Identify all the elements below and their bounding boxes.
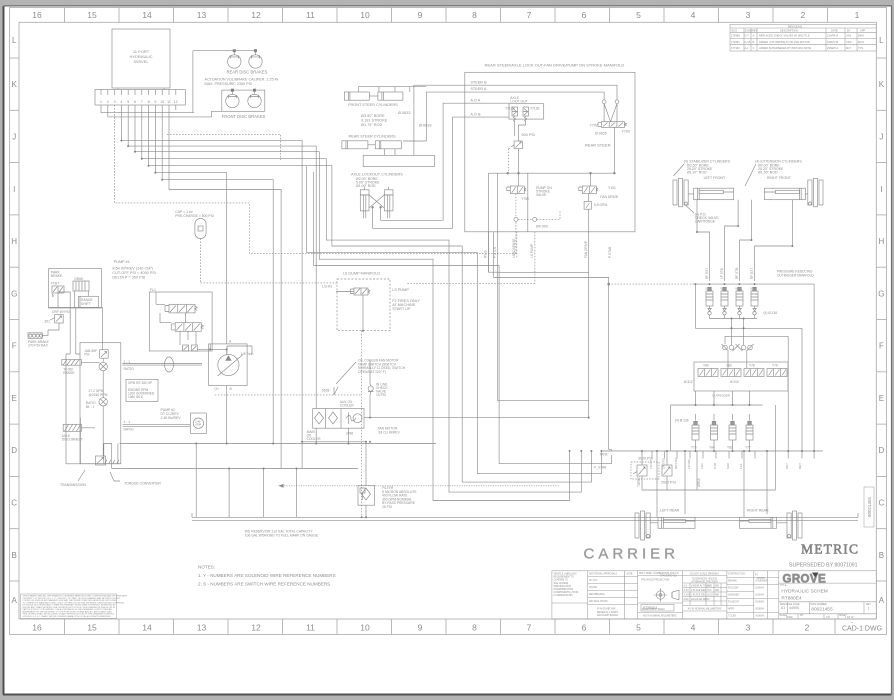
svg-text:9: 9 [418, 623, 423, 633]
svg-text:CHECKED: CHECKED [728, 595, 740, 597]
right nested wires [488, 271, 497, 273]
svg-text:CAD-1 DWG: CAD-1 DWG [842, 626, 882, 633]
svg-text:ANGULAR DIM: ANGULAR DIM [691, 598, 707, 601]
svg-text:FRONT STEER CYLINDERS: FRONT STEER CYLINDERS [348, 103, 398, 107]
svg-text:Y713E: Y713E [530, 107, 540, 111]
svg-text:LEFT FRONT: LEFT FRONT [704, 176, 726, 180]
svg-text:Y83: Y83 [726, 364, 732, 368]
svg-text:8JUN04: 8JUN04 [756, 609, 765, 611]
svg-text:3786: 3786 [346, 432, 354, 436]
svg-text:3 PLACE DEC: 3 PLACE DEC [691, 594, 706, 597]
svg-text:S4O: S4O [726, 462, 730, 469]
svg-text:SAE J1319/92: SAE J1319/92 [554, 582, 569, 585]
accumulator dashed drop [200, 238, 202, 283]
svg-text:LS-IN: LS-IN [322, 285, 332, 289]
wire bank bus [671, 391, 763, 451]
wire park brake bottom [49, 307, 103, 309]
svg-text:11: 11 [167, 100, 171, 104]
svg-text:NONE: NONE [786, 617, 793, 619]
svg-text:RF EXT: RF EXT [705, 268, 709, 279]
svg-text:A: A [12, 596, 18, 605]
svg-text:13: 13 [197, 10, 207, 20]
FL1 valve box [149, 292, 212, 351]
svg-text:CARTRIDGE: CARTRIDGE [695, 220, 716, 224]
svg-text:MAX. PRESSURE: 2300 PSI: MAX. PRESSURE: 2300 PSI [205, 82, 253, 86]
svg-text:4: 4 [120, 100, 122, 104]
svg-text:BKM: BKM [858, 34, 864, 38]
main lower bus [601, 450, 823, 452]
svg-text:G: G [878, 289, 884, 298]
svg-text:1/8 Twin: 1/8 Twin [241, 352, 254, 356]
wire cylinder drops [697, 200, 792, 281]
wire steer B [414, 85, 465, 149]
svg-text:O<: O< [215, 387, 220, 391]
outrigger bank box [694, 362, 788, 391]
prop valve stack 2 [175, 323, 201, 332]
svg-text:FRONT DISC BRAKES: FRONT DISC BRAKES [222, 114, 266, 119]
svg-text:ANG: ANG [684, 598, 689, 601]
dashed brake pilot wire [167, 134, 280, 160]
rear disc brakes [193, 50, 262, 113]
svg-text:LS DUMP MANIFOLD: LS DUMP MANIFOLD [343, 272, 381, 276]
svg-text:OTHERWISE SPECIFIED: OTHERWISE SPECIFIED [691, 582, 718, 584]
svg-text:14: 14 [142, 10, 152, 20]
svg-text:DESI BRAZNG: DESI BRAZNG [589, 593, 605, 596]
reservoir drops [196, 444, 296, 518]
manifold lower wire [695, 284, 802, 451]
11-port hydraulic swivel [112, 29, 170, 90]
svg-text:REPLACED CHECK VALVES W/ SHUTT: REPLACED CHECK VALVES W/ SHUTTLE [759, 34, 810, 38]
pump on stroke valve Y755 [510, 186, 524, 194]
svg-text:REQUIREMENT TO: REQUIREMENT TO [554, 577, 575, 579]
svg-text:TRANSMISSION: TRANSMISSION [60, 483, 86, 487]
svg-text:7: 7 [527, 623, 532, 633]
ratio shaft 1 [122, 364, 202, 366]
svg-text:SWIVEL: SWIVEL [133, 59, 149, 64]
wire steer A [403, 92, 465, 141]
park brake port block [28, 333, 43, 339]
svg-text:L: L [879, 36, 884, 45]
svg-text:Y79: Y79 [705, 287, 711, 291]
svg-text:F: F [879, 342, 884, 351]
svg-text:LF STB: LF STB [720, 268, 724, 279]
revision table [730, 25, 876, 52]
svg-text:(4) Ø.136: (4) Ø.136 [764, 311, 778, 315]
collect wire [710, 319, 758, 329]
svg-text:9.191 STROKE: 9.191 STROKE [361, 119, 388, 123]
inline check valve [368, 386, 373, 391]
svg-text:6: 6 [582, 623, 587, 633]
svg-text:1: 1 [100, 100, 102, 104]
svg-text:REVISIONS: REVISIONS [788, 24, 802, 28]
valve group drop wire [515, 121, 526, 136]
svg-text:10: 10 [160, 100, 164, 104]
rotated port labels [484, 239, 613, 259]
svg-text:AF QTC: AF QTC [589, 579, 598, 582]
enclosure internal wires [81, 308, 103, 457]
svg-text:L: L [12, 36, 17, 45]
svg-text:G-15: G-15 [745, 40, 751, 44]
svg-text:H: H [11, 237, 17, 246]
svg-text:DATE: DATE [627, 573, 633, 576]
svg-text:REAR STEER: REAR STEER [585, 143, 611, 148]
svg-text:Y101: Y101 [608, 186, 616, 190]
svg-text:D: D [879, 446, 885, 455]
S528 switch [322, 389, 330, 393]
svg-text:Ø.312: Ø.312 [684, 380, 693, 384]
fan symbol [346, 413, 356, 425]
manifold exit wires [488, 173, 527, 401]
svg-text:ADDED SUPERSEDED BY 80071091 N: ADDED SUPERSEDED BY 80071091 NOTE [759, 46, 811, 50]
svg-text:5: 5 [636, 623, 641, 633]
svg-text:REV: REV [752, 28, 758, 32]
svg-text:X.XXX: X.XXX [684, 595, 691, 597]
LS dump manifold box [337, 279, 390, 331]
svg-text:DELTA P = 350 PSI: DELTA P = 350 PSI [112, 276, 145, 280]
compensator link wire [198, 344, 227, 355]
svg-text:FAN DRIVE: FAN DRIVE [600, 195, 619, 199]
relief 500 PSI [514, 141, 522, 149]
pump case drain wires [227, 346, 252, 354]
center vertical wires to LS [488, 232, 493, 278]
svg-text:TANK: TANK [600, 453, 609, 457]
svg-text:E: E [12, 394, 17, 403]
svg-text:15: 15 [87, 623, 97, 633]
svg-text:5: 5 [127, 100, 129, 104]
svg-text:A/S IN NOMINAL MILLIMETERS: A/S IN NOMINAL MILLIMETERS [688, 608, 722, 611]
svg-text:29SEP14: 29SEP14 [827, 46, 839, 50]
svg-text:A1: A1 [781, 606, 785, 610]
svg-text:FAN DRIVE: FAN DRIVE [584, 241, 588, 258]
wire bus 7 [142, 105, 582, 492]
svg-text:LOCK OUT: LOCK OUT [510, 100, 527, 104]
svg-text:RS B: RS B [484, 251, 488, 258]
svg-text:D: D [11, 446, 17, 455]
svg-text:MM: MM [715, 590, 719, 592]
extension cylinder right [764, 188, 807, 200]
svg-text:AND DAMP BADGE: AND DAMP BADGE [597, 614, 618, 617]
svg-text:REV: REV [866, 604, 871, 606]
svg-text:GROVE U.S. L.L.C. SHADY GROVE,: GROVE U.S. L.L.C. SHADY GROVE, PENNSYLVA… [23, 615, 112, 618]
wire port9 to pump [155, 105, 226, 344]
JAB valve [100, 350, 109, 359]
svg-text:172491: 172491 [731, 40, 740, 44]
coupling ellipse [165, 357, 174, 372]
svg-text:Ø.0625: Ø.0625 [595, 132, 607, 136]
svg-text:10: 10 [360, 623, 370, 633]
svg-text:Y81: Y81 [735, 287, 741, 291]
svg-text:C: C [753, 46, 755, 50]
svg-text:7: 7 [141, 100, 143, 104]
svg-text:X.XX: X.XX [684, 590, 690, 592]
svg-text:RIGHT REAR: RIGHT REAR [747, 509, 769, 513]
svg-text:4: 4 [691, 10, 696, 20]
wire port10 [162, 105, 273, 444]
front disc brakes [222, 89, 265, 111]
wire tank return [642, 451, 697, 490]
svg-text:A.O B: A.O B [470, 112, 481, 116]
svg-text:CONTRACT NO.: CONTRACT NO. [728, 573, 746, 576]
svg-text:177190: 177190 [731, 46, 740, 50]
svg-text:ACTUATION VOL/BRAKE CALIPER: 1: ACTUATION VOL/BRAKE CALIPER: 1.25 IN [205, 78, 279, 82]
svg-text:APPD: APPD [728, 608, 735, 611]
ruler numbers top [32, 10, 859, 20]
svg-text:C: C [879, 499, 885, 508]
P STAB vertical [609, 284, 612, 451]
shuttle V link [604, 104, 617, 122]
svg-text:STEER B: STEER B [470, 80, 487, 84]
pilot dashed wire port3 [115, 105, 516, 254]
svg-text:A: A [753, 34, 755, 38]
pump 2 circle [191, 413, 207, 433]
svg-text:REAR DISC BRAKES: REAR DISC BRAKES [227, 69, 268, 74]
svg-text:2.48 IN³/REV: 2.48 IN³/REV [161, 416, 182, 420]
ratio shaft 2 [123, 425, 190, 427]
svg-text:LOADSENSE: LOADSENSE [512, 239, 516, 259]
svg-text:SPECIFICATION: SPECIFICATION [554, 585, 572, 588]
svg-text:6: 6 [134, 100, 136, 104]
svg-text:(4) Ø.136: (4) Ø.136 [675, 419, 689, 423]
svg-text:T.CLEN: T.CLEN [728, 616, 736, 618]
front steer cylinders [344, 87, 426, 101]
svg-text:PUMP #1: PUMP #1 [114, 260, 130, 264]
orifice 5.5 GPM [584, 201, 591, 209]
svg-text:7: 7 [527, 10, 532, 20]
svg-text:1 OF 10: 1 OF 10 [845, 617, 854, 619]
port numbers [100, 100, 178, 104]
svg-text:RATIO: RATIO [124, 427, 134, 431]
svg-text:19MAY15: 19MAY15 [827, 40, 839, 44]
small orifice squares [183, 345, 189, 351]
svg-text:±1°: ±1° [707, 599, 711, 601]
drain box [73, 281, 89, 291]
svg-text:STEER A: STEER A [470, 87, 487, 91]
wire staircase extra [307, 166, 602, 474]
bottom small valve [96, 456, 106, 465]
svg-text:RANGE: RANGE [63, 371, 74, 375]
svg-text:±0.5: ±0.5 [707, 590, 712, 592]
svg-text:2: 2 [107, 100, 109, 104]
svg-text:NOTES:: NOTES: [198, 565, 215, 570]
circle X 2 [99, 398, 107, 406]
svg-text:RT880E4: RT880E4 [643, 606, 657, 610]
svg-text:B: B [12, 551, 17, 560]
cooler labels [307, 427, 401, 442]
pump out wire [226, 386, 228, 444]
svg-text:A.O A: A.O A [470, 99, 480, 103]
svg-text:2000 PSI: 2000 PSI [661, 481, 676, 485]
svg-text:LSI RT: LSI RT [649, 460, 653, 469]
LS dump solenoid [354, 288, 368, 295]
leader lines [674, 164, 757, 213]
reservoir line [192, 513, 858, 520]
rear steer cylinders [342, 141, 435, 167]
svg-text:CARRIER: CARRIER [584, 546, 680, 563]
svg-text:P.I.: P.I. [755, 575, 759, 577]
svg-text:8JUN04: 8JUN04 [756, 616, 765, 618]
Y713B valve [512, 107, 518, 116]
wire A.O B [373, 117, 465, 228]
svg-text:GROVE: GROVE [783, 573, 827, 585]
svg-text:FL1: FL1 [150, 288, 156, 292]
svg-text:Ø3.50" BORE: Ø3.50" BORE [361, 114, 385, 118]
svg-text:DO NOT SCALE DRAWING: DO NOT SCALE DRAWING [690, 573, 719, 576]
wire rr feed [697, 405, 775, 490]
svg-text:44955: 44955 [789, 606, 799, 610]
filter [358, 486, 375, 506]
manifold title [485, 63, 625, 68]
FL1 internal wires [156, 292, 196, 345]
svg-text:8JUN04: 8JUN04 [756, 602, 765, 604]
A.O A internal wire [465, 102, 509, 104]
LS manifold internal wire [336, 292, 363, 331]
svg-text:COOLER: COOLER [307, 437, 322, 441]
pilot dashed to relief [509, 149, 512, 174]
svg-text:1 : 1: 1 : 1 [124, 420, 131, 424]
svg-text:5: 5 [636, 10, 641, 20]
gauge ports [602, 100, 606, 104]
axle lockout valve group box [509, 104, 544, 119]
wire bus 8 [149, 105, 592, 482]
svg-text:@2150 RPM: @2150 RPM [89, 393, 108, 397]
svg-text:500 PSI: 500 PSI [522, 133, 536, 137]
svg-text:B: B [753, 40, 755, 44]
svg-text:Ø.0633: Ø.0633 [398, 111, 410, 115]
svg-text:DISCONNECT: DISCONNECT [62, 438, 83, 442]
wire port11 [169, 105, 281, 469]
wire y441.8 [302, 441, 366, 443]
svg-text:G-7: G-7 [745, 34, 750, 38]
cartridge valves Y79 Y82 Y81 Y75 [706, 287, 758, 318]
svg-text:3: 3 [746, 623, 751, 633]
main pump enclosure [80, 343, 121, 464]
svg-text:Y82: Y82 [727, 446, 733, 450]
relief 2000 PSI [662, 451, 672, 490]
svg-text:25 PSI: 25 PSI [382, 505, 392, 509]
svg-text:3000 PSI: 3000 PSI [638, 457, 653, 461]
case drain dashed [215, 394, 362, 396]
title block text [554, 572, 787, 618]
wire port2 to front brakes [108, 105, 222, 117]
svg-text:METRIC: METRIC [801, 542, 859, 557]
extension cylinder right plates [808, 178, 823, 207]
svg-text:R.OLSON: R.OLSON [728, 588, 739, 590]
svg-text:13: 13 [197, 623, 207, 633]
pump2 text [161, 408, 182, 420]
svg-text:L4D: L4D [700, 463, 704, 469]
rear steer manifold box [465, 72, 635, 232]
svg-text:Y790: Y790 [622, 130, 630, 134]
svg-text:IF IN DOUBT ASK: IF IN DOUBT ASK [597, 608, 616, 611]
fan return frame [498, 273, 589, 401]
svg-text:GPM: GPM [195, 422, 201, 426]
svg-text:Y78: Y78 [749, 364, 755, 368]
svg-text:K: K [879, 80, 885, 89]
svg-text:B1 : 1: B1 : 1 [86, 405, 95, 409]
svg-text:119135: 119135 [757, 578, 765, 580]
wire STEER A [465, 92, 604, 100]
svg-text:ADDITIONAL APPROVALS: ADDITIONAL APPROVALS [589, 573, 617, 576]
wire outrigger drops [657, 451, 767, 517]
wire cooler right [364, 417, 589, 419]
prop valve stack 1 [169, 304, 195, 313]
aux oil cooler label [340, 400, 355, 408]
svg-text:A-1: A-1 [745, 46, 750, 50]
svg-text:REAR STEER/AXLE LOCK OUT-FAN D: REAR STEER/AXLE LOCK OUT-FAN DRIVE/PUMP … [485, 63, 625, 68]
shuttle valve pair [722, 328, 754, 351]
svg-text:E: E [879, 394, 884, 403]
svg-text:Y82: Y82 [720, 287, 726, 291]
svg-text:MM: MM [715, 595, 719, 597]
main pump assembly [209, 344, 248, 386]
svg-text:1: 1 [868, 607, 870, 611]
wire STEER B [465, 85, 617, 100]
svg-text:8.54 IN³/REV (140 CM³): 8.54 IN³/REV (140 CM³) [112, 267, 153, 271]
svg-text:15 PSI: 15 PSI [376, 393, 386, 397]
svg-text:SHIFT: SHIFT [81, 302, 91, 306]
wire ls manifold drop dashed [361, 331, 363, 518]
svg-text:11: 11 [306, 10, 315, 20]
svg-text:RIGHT FRONT: RIGHT FRONT [767, 176, 792, 180]
svg-text:ADDED .078 ORIFICE AT OIL FAN: ADDED .078 ORIFICE AT OIL FAN MOTOR [759, 40, 810, 44]
svg-text:START UP: START UP [392, 307, 411, 311]
svg-text:Y76: Y76 [691, 446, 697, 450]
svg-text:A/S IN NOMINAL MILLIMETERS: A/S IN NOMINAL MILLIMETERS [643, 615, 677, 618]
axle lockout cylinders [360, 187, 393, 218]
svg-text:X.X: X.X [684, 586, 688, 588]
svg-text:DWG NUMBER: DWG NUMBER [811, 604, 828, 606]
wire port12 [175, 105, 177, 110]
pressure reducing bus [695, 284, 814, 451]
svg-text:APP: APP [860, 28, 865, 32]
sideways dwg number right edge [864, 487, 874, 527]
second cartridge bank Y76 Y84 Y82 Y77 [692, 414, 753, 451]
svg-text:6: 6 [582, 10, 587, 20]
svg-text:GPM RE 350 HP: GPM RE 350 HP [128, 381, 152, 385]
svg-text:F: F [12, 342, 17, 351]
pump 1 text [112, 260, 156, 280]
svg-text:4: 4 [691, 623, 696, 633]
svg-text:14: 14 [142, 623, 152, 633]
svg-text:1080 IDLE: 1080 IDLE [128, 395, 143, 399]
accumulator [195, 218, 206, 238]
svg-text:9: 9 [418, 10, 423, 20]
stabilizer cylinder left plates [673, 178, 688, 207]
svg-text:HYDRAULIC SCHEM: HYDRAULIC SCHEM [781, 588, 827, 594]
svg-text:C: C [11, 499, 17, 508]
svg-text:G: G [11, 289, 17, 298]
svg-text:RATIO: RATIO [124, 367, 134, 371]
small valve [55, 315, 64, 323]
svg-text:LS PUMP: LS PUMP [392, 288, 409, 292]
svg-text:2: 2 [801, 10, 806, 20]
wire bus port5 to cooler top [128, 105, 316, 409]
park brake solenoid [52, 286, 64, 293]
svg-text:TOLERANCES UNLESS: TOLERANCES UNLESS [692, 578, 718, 581]
relief 3000 PSI [631, 451, 659, 490]
svg-text:8: 8 [472, 10, 477, 20]
svg-text:IA GB2000/00-005.: IA GB2000/00-005. [554, 594, 574, 597]
svg-text:P_STAB: P_STAB [594, 466, 606, 470]
svg-text:J: J [879, 133, 883, 142]
svg-text:16: 16 [32, 10, 42, 20]
svg-text:RENEW ALL WORN: RENEW ALL WORN [597, 611, 618, 614]
svg-text:2: 2 [805, 623, 810, 633]
oil cooler block [313, 409, 364, 429]
hatched block TF [62, 360, 82, 366]
svg-text:CONFIRM TO: CONFIRM TO [554, 580, 569, 582]
row letters [11, 36, 885, 605]
